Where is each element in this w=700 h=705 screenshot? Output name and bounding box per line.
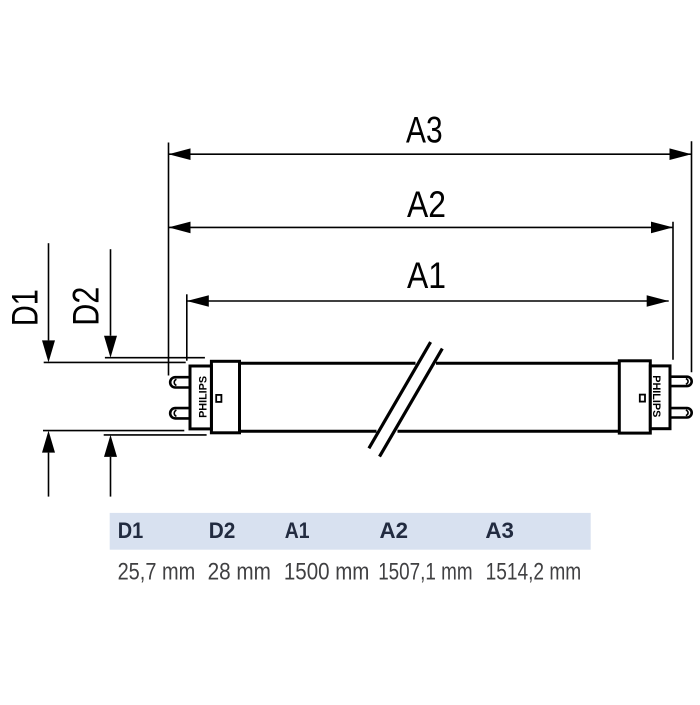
left bottom pin [170, 408, 190, 418]
dimension line A1 [187, 300, 669, 302]
left end cap main section [211, 361, 239, 433]
arrowhead A1 right [647, 295, 669, 307]
svg-text:PHILIPS: PHILIPS [198, 376, 210, 418]
dimension D1 extension line bottom [43, 430, 184, 432]
right bottom pin [670, 408, 692, 417]
svg-text:D1: D1 [118, 518, 144, 543]
svg-text:D1: D1 [4, 289, 45, 326]
svg-text:1500 mm: 1500 mm [284, 558, 370, 585]
svg-text:1507,1 mm: 1507,1 mm [378, 558, 472, 585]
dimension D2 vertical line top with arrow [110, 249, 112, 336]
left end cap narrow section [190, 366, 211, 429]
tube body top edge (left of break) [240, 362, 416, 365]
tube body top edge (right of break) [436, 362, 620, 365]
svg-text:D2: D2 [66, 287, 107, 326]
dimension D2 extension line top [105, 357, 205, 359]
dimension line A2 [169, 226, 674, 228]
svg-text:A3: A3 [485, 518, 514, 543]
tube body bottom edge (right of break) [398, 430, 620, 433]
svg-text:D2: D2 [209, 518, 236, 543]
svg-text:A2: A2 [380, 518, 409, 543]
arrowhead A3 right [670, 148, 692, 160]
tube body bottom edge (left of break) [240, 430, 377, 433]
dimension A3 extension line left [168, 143, 170, 376]
break symbol line 1 [369, 342, 431, 448]
svg-text:A3: A3 [406, 110, 443, 151]
arrowhead A3 left [169, 148, 191, 160]
svg-text:A1: A1 [285, 518, 310, 543]
dimension D1 extension line top [44, 361, 186, 363]
break symbol line 2 [380, 349, 443, 457]
dimension D2 extension line bottom [104, 434, 207, 436]
svg-text:PHILIPS: PHILIPS [650, 375, 662, 417]
right end cap main section [619, 361, 650, 433]
right end cap narrow section [650, 366, 670, 429]
dimension D2 vertical line bottom with arrow [110, 457, 112, 497]
dimension line A3 [169, 153, 692, 155]
arrowhead A2 left [169, 222, 191, 234]
dimension D1 vertical line top with arrow [48, 243, 50, 340]
arrowhead A2 right [651, 222, 673, 234]
left cap small square mark [216, 395, 221, 402]
left top pin [170, 377, 190, 387]
arrowhead A1 left [187, 295, 209, 307]
right cap small square mark [640, 395, 645, 402]
svg-text:28 mm: 28 mm [208, 558, 271, 585]
svg-text:A2: A2 [407, 184, 446, 225]
svg-text:25,7 mm: 25,7 mm [118, 558, 196, 585]
dimension A2 extension line right [672, 222, 674, 360]
table header band [110, 513, 591, 550]
dimension A3 extension line right [691, 141, 693, 372]
svg-text:1514,2 mm: 1514,2 mm [486, 558, 582, 585]
svg-text:A1: A1 [407, 255, 446, 296]
right top pin [670, 377, 692, 386]
dimension D1 vertical line bottom with arrow [48, 453, 50, 497]
dimension A1 extension line left [186, 294, 188, 360]
